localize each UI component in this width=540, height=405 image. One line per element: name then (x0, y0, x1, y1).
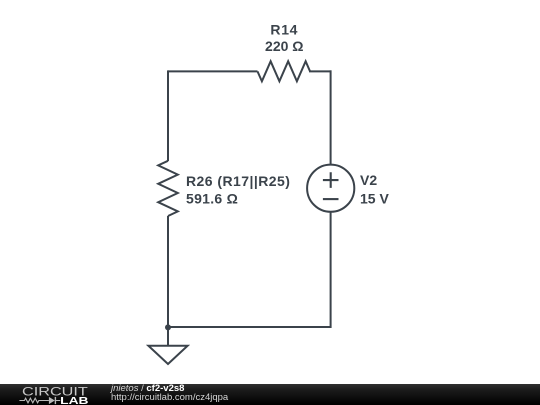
voltage source V2 (307, 165, 354, 212)
resistor R14 (258, 61, 311, 81)
CircuitLab logo (0, 384, 110, 405)
node junction dot (165, 324, 171, 330)
svg-text:V2: V2 (360, 172, 377, 188)
svg-text:15 V: 15 V (360, 190, 389, 206)
svg-text:R14: R14 (270, 22, 298, 38)
logo resistor squiggle and diode (19, 398, 60, 403)
resistor R26 (158, 161, 178, 216)
V2 plus sign (323, 172, 339, 188)
footer bar (0, 384, 540, 405)
wire ground stub (167, 327, 169, 346)
svg-text:R26 (R17||R25): R26 (R17||R25) (186, 173, 290, 189)
wire right upper (330, 70, 332, 164)
V2 minus sign (323, 198, 339, 200)
wire right lower (330, 212, 332, 328)
wire bottom (167, 326, 332, 328)
wire top-left segment (168, 70, 258, 72)
wire top-right segment (309, 70, 332, 72)
svg-text:591.6 Ω: 591.6 Ω (186, 191, 238, 207)
ground symbol (148, 346, 187, 364)
svg-text:LAB: LAB (60, 396, 88, 405)
wire left lower (167, 216, 169, 328)
wire left upper (167, 70, 169, 161)
svg-text:220 Ω: 220 Ω (265, 38, 303, 54)
